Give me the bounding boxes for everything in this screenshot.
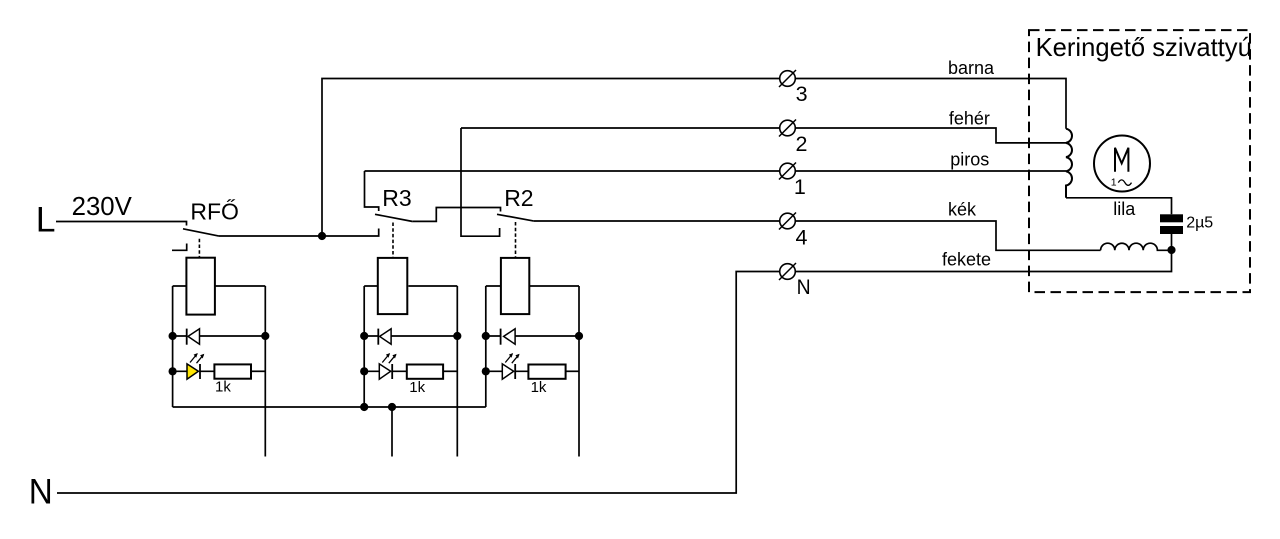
terminal 2 (779, 120, 796, 137)
diode D3 (364, 329, 457, 345)
wire piros into pump (796, 170, 1067, 172)
switch RFŐ auxiliary contact bracket (172, 244, 187, 251)
wire RFŐ output extension to R3 contact (322, 229, 379, 237)
wire R3 output to R2 input (413, 208, 501, 222)
svg-text:lila: lila (1113, 199, 1136, 219)
wire fekete from terminal N to pump (796, 250, 1172, 272)
rail group3 right (578, 286, 580, 457)
rail group1 right (264, 286, 266, 457)
diode D5 (486, 329, 579, 345)
svg-text:N: N (797, 275, 811, 299)
svg-text:N: N (29, 471, 53, 511)
inductor L1 (1101, 243, 1172, 250)
wire kék into pump (796, 221, 1101, 250)
svg-text:4: 4 (796, 226, 808, 250)
svg-text:1: 1 (1111, 177, 1117, 189)
resistor R5 1k (528, 365, 579, 379)
rail group3 left (485, 286, 487, 407)
wire RFŐ output (219, 235, 322, 237)
svg-text:kék: kék (948, 199, 977, 219)
mechanical link R3 (dashed) (392, 223, 394, 258)
svg-text:Keringető szivattyú: Keringető szivattyú (1036, 34, 1252, 62)
wire piros to terminal 1 (365, 170, 780, 172)
wire fehér to terminal 2 (461, 127, 780, 129)
wire L feed 230V (56, 222, 187, 226)
svg-text:2µ5: 2µ5 (1186, 215, 1213, 232)
svg-text:2: 2 (796, 132, 808, 156)
terminal 4 (779, 213, 796, 230)
junction dots on bottom bus (360, 403, 368, 411)
pump stator winding with taps (1066, 129, 1072, 198)
relay coil K3 (R2) (486, 258, 579, 314)
svg-text:L: L (36, 199, 56, 239)
mechanical link R2 (dashed) (515, 222, 517, 258)
wire barna into pump (796, 79, 1067, 129)
wire fehér into pump (796, 128, 1067, 143)
wire lila (1066, 198, 1172, 215)
rail group2 left (363, 286, 365, 407)
wire fehér riser to R2 lower contact (461, 128, 500, 236)
junction dots group3 (482, 332, 490, 340)
svg-text:230V: 230V (72, 193, 133, 221)
svg-text:1k: 1k (215, 379, 231, 396)
rail group1 left (172, 286, 174, 407)
junction dots group2 (360, 332, 368, 340)
capacitor C1 (1160, 214, 1183, 250)
switch RFŐ blade (183, 229, 219, 236)
switch R3 input from piros (365, 171, 379, 211)
junction node A (318, 232, 326, 240)
terminal 3 (779, 70, 796, 87)
junction dots group1 (169, 332, 177, 340)
junction node B (1167, 246, 1175, 254)
svg-text:barna: barna (948, 58, 995, 78)
svg-text:fehér: fehér (949, 108, 990, 128)
motor M1 (1094, 136, 1150, 192)
diode D1 (173, 329, 266, 345)
relay coil K1 (RFŐ) (173, 258, 266, 315)
wire riser to barna (322, 79, 780, 237)
terminal 1 (779, 163, 796, 180)
switch R2 blade (497, 214, 533, 221)
relay coil K2 (R3) (364, 258, 457, 314)
svg-text:R3: R3 (382, 185, 411, 211)
terminal N (779, 263, 796, 280)
svg-text:1k: 1k (409, 379, 425, 396)
LED D4 (364, 353, 407, 379)
pump enclosure (dashed box) (1029, 30, 1250, 292)
svg-text:fekete: fekete (942, 250, 991, 270)
svg-text:RFŐ: RFŐ (190, 199, 239, 225)
rail group2 right (456, 286, 458, 457)
LED D6 (486, 353, 529, 379)
svg-text:piros: piros (950, 150, 989, 170)
LED D2 (yellow, lit) (173, 353, 215, 379)
svg-text:1: 1 (794, 175, 806, 199)
stub wire below bus (391, 407, 393, 457)
wire kék from R2 to terminal 4 (533, 220, 779, 222)
wire terminal N to bottom N rail (57, 272, 780, 494)
svg-text:R2: R2 (504, 185, 533, 211)
svg-text:3: 3 (796, 82, 808, 106)
resistor R4 1k (407, 365, 458, 379)
resistor R1 1k (214, 364, 265, 378)
bottom bus wire (173, 406, 486, 408)
mechanical link RFŐ (dashed) (198, 239, 200, 258)
switch R3 blade (375, 214, 413, 221)
svg-text:1k: 1k (531, 379, 547, 396)
